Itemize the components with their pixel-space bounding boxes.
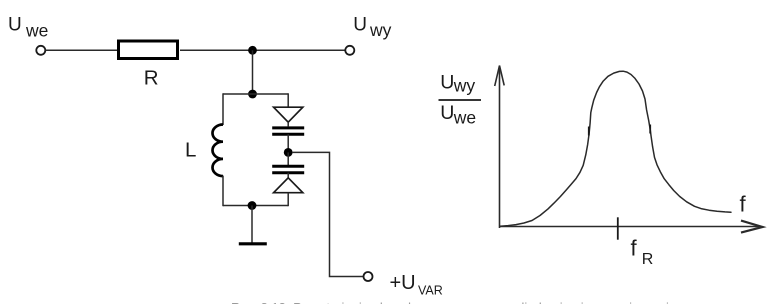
wire left branch lower: [222, 176, 224, 207]
wire middle node to D2: [287, 152, 289, 166]
wire right branch upper: [287, 93, 289, 107]
terminal U_wy: [345, 46, 354, 55]
resistor R: [119, 41, 178, 59]
x-axis: [500, 221, 763, 233]
wire input to resistor: [45, 49, 117, 51]
svg-text:Rys. 8.13. Przestrajanie obwod: Rys. 8.13. Przestrajanie obwodu rezonans…: [231, 300, 669, 304]
label fR: [631, 235, 654, 267]
svg-text:we: we: [453, 108, 476, 128]
varicap D1 connector: [287, 122, 289, 126]
node middle varicap junction: [284, 148, 293, 157]
svg-text:U: U: [440, 102, 454, 124]
wire tank bottom: [223, 205, 288, 207]
svg-text:wy: wy: [453, 75, 476, 95]
svg-text:U: U: [353, 15, 367, 36]
svg-text:U: U: [440, 72, 454, 94]
node ground junction: [248, 201, 257, 210]
wire ground stub: [251, 206, 253, 244]
svg-text:f: f: [740, 191, 747, 216]
terminal U_we: [36, 46, 45, 55]
svg-text:+U: +U: [390, 272, 416, 294]
varicap D1 cathode bars: [272, 128, 304, 134]
node tank top junction: [248, 90, 257, 99]
svg-text:we: we: [25, 20, 48, 40]
varicap D2 connector: [287, 173, 289, 178]
wire left branch upper: [222, 93, 224, 125]
varicap D1 triangle: [274, 107, 303, 122]
svg-text:VAR: VAR: [418, 284, 443, 298]
terminal +U_VAR: [364, 272, 373, 281]
curve tick left: [588, 127, 590, 136]
wire right branch lower: [287, 193, 289, 207]
varicap D2 triangle: [274, 178, 303, 193]
svg-text:L: L: [185, 138, 196, 161]
wire resistor to output: [180, 49, 345, 51]
varicap D2 cathode bars: [272, 166, 304, 172]
resonance curve: [500, 71, 731, 226]
svg-text:f: f: [631, 235, 638, 260]
label U_we: [8, 14, 48, 40]
wire junction down to tank: [252, 50, 254, 94]
svg-text:wy: wy: [369, 20, 392, 40]
svg-text:R: R: [144, 66, 159, 89]
inductor L: [213, 125, 224, 177]
label +U_VAR: [390, 272, 443, 298]
y-axis: [495, 66, 505, 229]
ground: [239, 242, 267, 245]
svg-text:U: U: [8, 14, 22, 35]
node top junction: [248, 46, 257, 55]
axis tick fR: [617, 217, 619, 239]
wire tank top: [223, 93, 288, 95]
wire D1 to middle node: [287, 134, 289, 152]
label Uwy/Uwe fraction: [439, 72, 482, 128]
wire control from middle node: [293, 152, 364, 276]
label U_wy: [353, 15, 391, 40]
curve tick right: [649, 125, 651, 134]
svg-text:R: R: [642, 251, 654, 268]
